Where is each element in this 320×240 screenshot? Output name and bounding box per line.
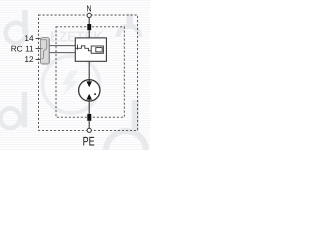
wire spark gap to bottom clamp (88, 101, 90, 114)
terminal PE (87, 128, 91, 132)
terminal tick 11 (36, 48, 41, 50)
wire clamp to PE terminal (88, 121, 90, 128)
wire N terminal to clamp (88, 18, 90, 25)
RC changeover contact lever (41, 40, 46, 59)
thermal disconnector box (75, 38, 106, 61)
disconnector contact tick (77, 45, 79, 50)
spark gap circle (79, 80, 100, 101)
svg-text:12: 12 (24, 54, 34, 64)
protection module outline (inner dashed boundary) (56, 27, 124, 117)
terminal tick 12 (36, 58, 41, 60)
svg-text:14: 14 (24, 33, 34, 43)
watermark logo top-left (6, 23, 26, 43)
clamp terminal top (87, 24, 91, 30)
RC common stub (terminal 11) (40, 48, 43, 50)
disconnector squarewave link (75, 46, 91, 51)
device outline (outer dashed boundary) (39, 15, 138, 130)
remote contact block RC (40, 38, 49, 65)
linkage lines RC to disconnector (50, 45, 76, 47)
fuse element outer box (91, 46, 103, 53)
svg-text:PE: PE (83, 135, 95, 149)
svg-text:RC 11: RC 11 (11, 44, 34, 54)
watermark big ring center (43, 56, 100, 113)
spark gap bottom electrode arrow (88, 99, 90, 101)
watermark logo bottom-left (0, 109, 20, 129)
watermark logo top-right (118, 26, 140, 37)
fuse element inner box (96, 48, 102, 52)
spark gap trigger dot (94, 93, 96, 95)
svg-text:N: N (87, 3, 92, 13)
spark gap top electrode arrow (88, 80, 90, 82)
clamp terminal bottom (87, 114, 91, 121)
wire clamp to disconnector box (88, 30, 90, 38)
watermark logo bottom-right (106, 131, 146, 171)
terminal tick 14 (36, 37, 41, 39)
wire disconnector to spark gap (88, 61, 90, 80)
terminal N (87, 13, 91, 17)
